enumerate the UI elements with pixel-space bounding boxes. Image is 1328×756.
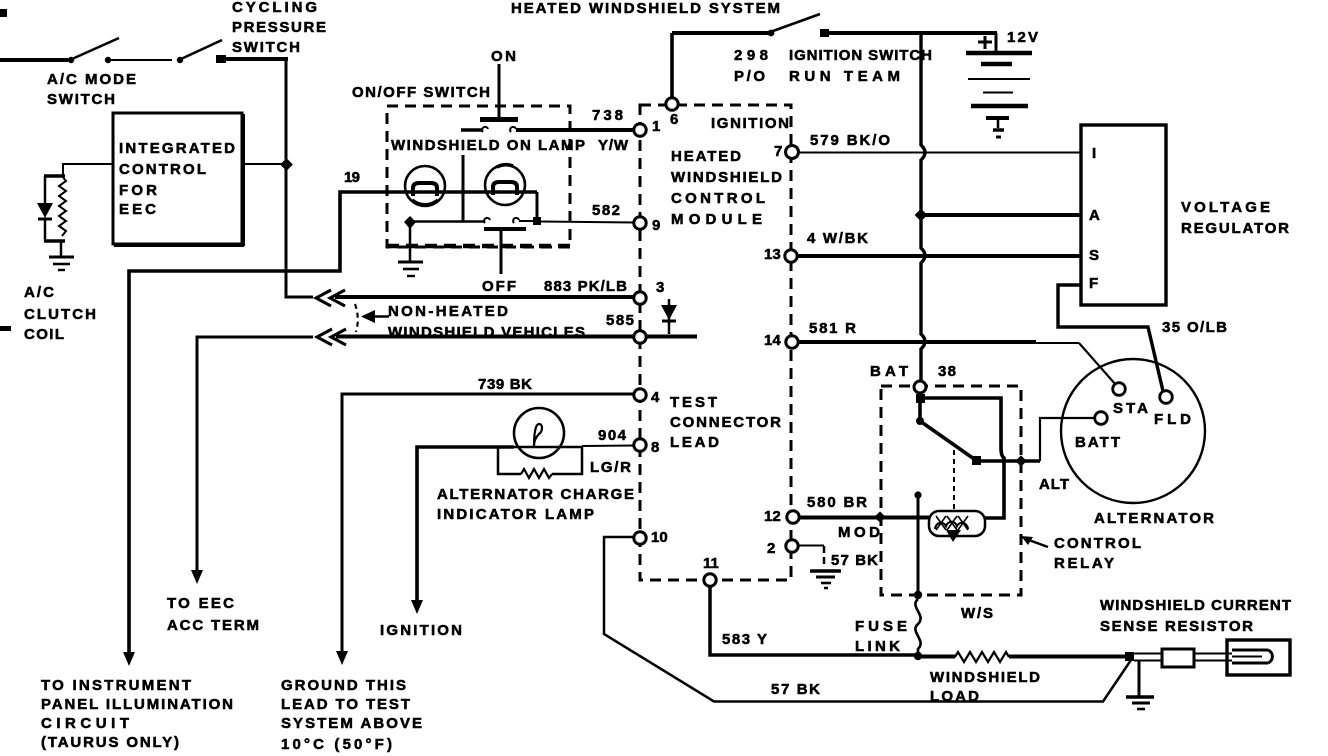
annotation: non-heated windshield vehicles — [355, 303, 585, 341]
svg-text:12: 12 — [764, 508, 781, 525]
node: sense resistor junction — [1125, 652, 1134, 661]
svg-text:INDICATOR LAMP: INDICATOR LAMP — [437, 506, 594, 523]
svg-text:CONNECTOR: CONNECTOR — [670, 414, 781, 431]
svg-text:LOAD: LOAD — [930, 688, 979, 705]
svg-text:CONTROL: CONTROL — [119, 161, 206, 178]
svg-text:WINDSHIELD VEHICLES: WINDSHIELD VEHICLES — [388, 324, 585, 341]
wire: EEC right lead — [242, 163, 286, 165]
resistor R1 parallel with charge lamp — [498, 447, 582, 478]
svg-text:I: I — [1092, 145, 1096, 162]
svg-text:13: 13 — [764, 246, 781, 263]
svg-text:IGNITION SWITCH: IGNITION SWITCH — [789, 47, 932, 64]
svg-text:582: 582 — [592, 202, 620, 219]
svg-text:A/C: A/C — [24, 284, 54, 301]
svg-text:38: 38 — [938, 363, 956, 380]
svg-text:739 BK: 739 BK — [478, 376, 532, 393]
svg-text:WINDSHIELD: WINDSHIELD — [930, 669, 1040, 686]
svg-text:FOR: FOR — [119, 182, 157, 199]
svg-text:583 Y: 583 Y — [722, 631, 767, 648]
svg-text:BAT: BAT — [870, 363, 908, 380]
wire: ignition feed to charge lamp — [417, 447, 514, 600]
label: control relay with pointer — [1021, 535, 1141, 572]
svg-text:Y/W: Y/W — [598, 137, 629, 154]
svg-text:10°C (50°F): 10°C (50°F) — [281, 736, 392, 753]
terminal 8 — [634, 439, 646, 451]
switch: ON contact — [461, 48, 518, 132]
svg-text:GROUND THIS: GROUND THIS — [281, 677, 406, 694]
wire 583 Y from terminal 11 — [710, 586, 916, 655]
svg-text:CONTROL: CONTROL — [671, 190, 765, 207]
svg-text:SYSTEM ABOVE: SYSTEM ABOVE — [281, 715, 422, 732]
svg-text:579 BK/O: 579 BK/O — [810, 132, 890, 149]
svg-text:A: A — [1089, 207, 1100, 224]
node: junction of EEC wire on vertical — [280, 158, 293, 171]
terminal 585 — [634, 331, 646, 343]
terminal 9 — [634, 217, 646, 229]
node: lamp ground junction — [404, 216, 416, 229]
svg-text:F: F — [1089, 275, 1098, 292]
wire: lamp common down to switch level — [462, 155, 465, 222]
svg-text:PRESSURE: PRESSURE — [232, 19, 326, 36]
arrow: to instrument panel illumination — [41, 652, 233, 751]
terminal 12 — [787, 511, 799, 523]
svg-text:OFF: OFF — [482, 278, 516, 295]
lamp L2: windshield on lamp right — [485, 165, 525, 205]
EEC module box U1 — [113, 113, 244, 246]
resistor R2: windshield load — [918, 652, 1127, 705]
wire 738 Y/W to terminal 1 — [516, 107, 634, 154]
svg-text:(TAURUS ONLY): (TAURUS ONLY) — [41, 734, 179, 751]
battery B1 12V — [922, 29, 1038, 106]
wire: lamp2 to 582 — [536, 192, 539, 219]
svg-text:BATT: BATT — [1075, 434, 1120, 451]
terminal 6 — [666, 98, 678, 110]
switch: OFF contact — [482, 218, 534, 295]
coil winding — [59, 176, 66, 236]
svg-text:19: 19 — [344, 169, 360, 186]
svg-text:IGNITION: IGNITION — [711, 115, 789, 132]
svg-text:4: 4 — [651, 389, 660, 406]
terminal 7 — [786, 146, 799, 159]
svg-text:VOLTAGE: VOLTAGE — [1181, 199, 1270, 216]
svg-text:581 R: 581 R — [809, 320, 856, 337]
wire: lamp return to ground — [408, 220, 485, 223]
svg-text:W/S: W/S — [961, 605, 993, 622]
wire: battery feed vertical with hops — [921, 33, 925, 381]
scan artifact left edge mid — [0, 326, 11, 331]
arrow: 883 chevrons — [316, 290, 345, 306]
ground: A/C clutch coil — [49, 257, 74, 270]
arrow: 585 chevrons — [317, 329, 346, 345]
svg-text:738: 738 — [592, 107, 623, 124]
svg-text:SENSE RESISTOR: SENSE RESISTOR — [1100, 618, 1253, 635]
svg-text:LEAD TO TEST: LEAD TO TEST — [281, 696, 410, 713]
svg-text:ALT: ALT — [1039, 476, 1069, 493]
voltage regulator U2 — [1081, 125, 1289, 305]
svg-text:WINDSHIELD ON LAMP: WINDSHIELD ON LAMP — [391, 137, 585, 154]
svg-text:S: S — [1089, 247, 1099, 264]
svg-text:WINDSHIELD CURRENT: WINDSHIELD CURRENT — [1100, 597, 1291, 614]
fuse link F1 — [855, 599, 922, 660]
wire 579 BK/O terminal 7 to regulator I — [799, 132, 1081, 153]
wire: 585 lead to EEC ACC term — [197, 337, 313, 570]
wire 19: lamp feed from circuit 19 — [129, 169, 537, 652]
wire 35 O/LB regulator F to alternator FLD — [1058, 285, 1227, 391]
terminal 4 — [634, 389, 646, 401]
arrow: ignition — [380, 600, 462, 639]
wire: regulator A feed — [921, 213, 1081, 217]
svg-text:LINK: LINK — [855, 638, 900, 655]
wire 883 PK/LB from terminal 3 — [335, 278, 635, 297]
svg-text:ON/OFF SWITCH: ON/OFF SWITCH — [352, 84, 490, 101]
terminal 3 — [634, 292, 646, 304]
svg-text:RELAY: RELAY — [1054, 555, 1114, 572]
svg-text:904: 904 — [598, 427, 627, 444]
wire 585 from terminal — [336, 312, 697, 337]
svg-text:PANEL ILLUMINATION: PANEL ILLUMINATION — [41, 696, 233, 713]
svg-text:35 O/LB: 35 O/LB — [1162, 319, 1227, 336]
A/C clutch coil (diode + coil) — [24, 176, 96, 343]
heated windshield control module dashed box — [640, 105, 791, 580]
wire: pressure switch down to 883 arrows — [286, 59, 313, 297]
svg-text:NON-HEATED: NON-HEATED — [388, 303, 508, 320]
control relay dashed box K1 — [881, 386, 1021, 595]
ignition switch S3 — [672, 14, 932, 97]
ground: on/off switch — [398, 262, 423, 276]
svg-text:STA: STA — [1113, 400, 1148, 417]
svg-text:TO INSTRUMENT: TO INSTRUMENT — [41, 677, 191, 694]
svg-text:P/O: P/O — [734, 68, 765, 85]
relay coil — [929, 450, 985, 542]
wire: alternator BATT to relay contact — [1040, 418, 1094, 461]
scan artifact top-left edge — [0, 9, 7, 17]
terminal 14 — [786, 336, 798, 348]
relay armature and contact — [916, 393, 1040, 518]
svg-text:A/C MODE: A/C MODE — [47, 71, 136, 88]
ground: windshield circuit — [1126, 660, 1154, 709]
alternator G1 — [1039, 359, 1214, 527]
svg-text:7: 7 — [774, 143, 782, 160]
svg-text:COIL: COIL — [24, 326, 64, 343]
node: battery feed to regulator A — [915, 209, 928, 222]
svg-text:11: 11 — [703, 555, 719, 572]
terminal 10 — [634, 532, 646, 544]
svg-text:883 PK/LB: 883 PK/LB — [544, 278, 627, 295]
cycling pressure switch S2 — [177, 0, 326, 63]
svg-text:FLD: FLD — [1154, 411, 1191, 428]
terminal 13 — [785, 250, 797, 262]
svg-text:HEATED WINDSHIELD SYSTEM: HEATED WINDSHIELD SYSTEM — [511, 0, 780, 17]
lamp L3: alternator charge indicator lamp — [514, 408, 582, 458]
svg-text:ALTERNATOR: ALTERNATOR — [1094, 510, 1214, 527]
terminal 2 — [786, 540, 798, 552]
svg-text:WINDSHIELD: WINDSHIELD — [671, 169, 782, 186]
wire: 57 BK from terminal 10 — [604, 537, 1131, 702]
svg-text:LEAD: LEAD — [670, 434, 719, 451]
svg-text:2: 2 — [767, 540, 775, 557]
svg-text:9: 9 — [652, 217, 660, 234]
arrow: ground this lead — [281, 651, 422, 753]
lamp L1: windshield on lamp left — [405, 166, 445, 206]
diode CR1 — [44, 176, 47, 203]
wire 4 W/BK terminal 13 to regulator S — [797, 230, 1081, 256]
svg-text:57 BK: 57 BK — [831, 552, 878, 569]
terminal 11 — [704, 574, 716, 586]
ground: battery — [986, 118, 1009, 137]
wire 580 BR terminal 12 to relay coil MOD — [799, 494, 929, 541]
svg-text:ALTERNATOR CHARGE: ALTERNATOR CHARGE — [437, 486, 634, 503]
svg-text:1: 1 — [652, 118, 660, 135]
svg-text:EEC: EEC — [119, 201, 156, 218]
svg-text:6: 6 — [670, 111, 678, 128]
terminal 1 — [634, 124, 646, 136]
resistor R3: windshield current sense resistor — [1100, 597, 1291, 675]
arrow: to EEC ACC term — [167, 570, 259, 634]
wire 739 BK to terminal 4 — [342, 376, 637, 651]
A/C mode switch S1 — [0, 38, 172, 108]
wire 581 R terminal 14 to alternator STA — [798, 320, 1116, 385]
diode CR2 between terminal 3 and 585 — [661, 299, 677, 334]
wire 904 LG/R to terminal 8 — [582, 427, 634, 476]
svg-text:MOD: MOD — [838, 524, 880, 541]
svg-text:12V: 12V — [1007, 29, 1038, 46]
svg-text:8: 8 — [651, 439, 659, 456]
svg-text:10: 10 — [651, 529, 668, 546]
relay BAT terminal — [870, 363, 956, 393]
svg-text:CONTROL: CONTROL — [1054, 535, 1141, 552]
svg-text:LG/R: LG/R — [590, 459, 631, 476]
svg-text:14: 14 — [764, 332, 781, 349]
ON/OFF switch dashed box — [352, 84, 570, 247]
ground: terminal 2 — [810, 571, 841, 588]
wire: EEC left lead — [63, 164, 113, 176]
svg-text:3: 3 — [656, 279, 664, 296]
svg-text:585: 585 — [606, 312, 634, 329]
svg-text:REGULATOR: REGULATOR — [1181, 220, 1289, 237]
wire 57 BK terminal 2 to ground — [798, 546, 878, 570]
wire: W/S output of relay — [914, 491, 993, 622]
svg-text:298: 298 — [734, 47, 768, 64]
wire 582 to terminal 9 — [541, 202, 634, 223]
